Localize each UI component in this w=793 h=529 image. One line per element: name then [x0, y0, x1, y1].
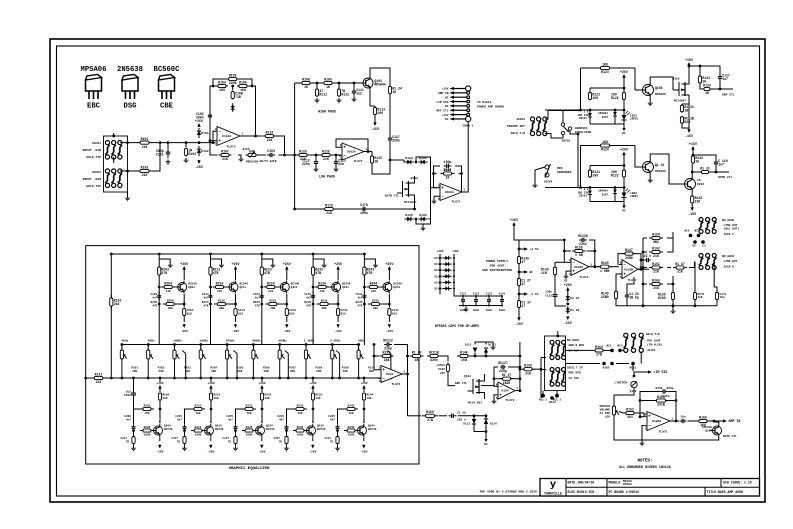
svg-text:-26V: -26V [386, 330, 393, 333]
svg-text:5: 5 [496, 397, 498, 400]
limsig arrow [633, 370, 668, 377]
label mc14007c [468, 402, 482, 405]
EQ slider 4 [199, 340, 217, 380]
svg-text:RC127: RC127 [498, 361, 508, 365]
svg-text:MC14 007: MC14 007 [468, 402, 482, 405]
svg-text:ELEC:M2019.SCH: ELEC:M2019.SCH [568, 490, 595, 494]
svg-text:4n7: 4n7 [306, 296, 311, 299]
svg-text:10K: 10K [316, 397, 321, 400]
svg-text:R216: R216 [218, 299, 225, 302]
svg-text:AND DISTRIBUTION: AND DISTRIBUTION [482, 268, 512, 272]
resistor R104 [216, 80, 228, 92]
svg-text:R162: R162 [652, 246, 660, 250]
labels jack6 [567, 367, 583, 381]
nc dots below j6 [539, 391, 561, 402]
wire u102 out [364, 150, 372, 153]
label mc14007a [404, 201, 417, 204]
transistor Q104 [640, 83, 663, 98]
pwr -26v u105 [564, 316, 572, 324]
resistor R147f [622, 248, 636, 260]
svg-text:DC: DC [622, 210, 626, 213]
svg-text:-26V: -26V [258, 450, 265, 453]
svg-text:1N4004: 1N4004 [598, 190, 608, 193]
capacitor C126 [625, 291, 639, 301]
svg-text:R145: R145 [460, 350, 468, 354]
jack56 box [545, 331, 566, 391]
svg-text:Q231: Q231 [342, 286, 349, 289]
svg-text:C202: C202 [124, 394, 131, 397]
svg-text:R117: R117 [444, 168, 452, 172]
svg-text:R104: R104 [218, 80, 226, 84]
jack JACK7 [699, 218, 717, 234]
svg-text:R159: R159 [426, 410, 434, 414]
resistor R113 [373, 106, 385, 116]
svg-text:GOLD_TIP: GOLD_TIP [86, 155, 101, 159]
wire u102 fb [336, 139, 368, 152]
svg-text:1K: 1K [446, 176, 450, 180]
label q105 [672, 78, 679, 81]
svg-text:R119: R119 [325, 203, 333, 207]
diode D103f [231, 103, 235, 112]
svg-text:10K: 10K [163, 397, 168, 400]
svg-text:2N5638: 2N5638 [117, 66, 143, 74]
svg-text:50K: 50K [264, 370, 269, 373]
resistor R221 [427, 350, 441, 362]
svg-text:−: − [343, 154, 346, 159]
arrow amp in [710, 419, 740, 423]
LED channel 2 [545, 140, 638, 213]
svg-text:R103: R103 [188, 152, 196, 156]
transistor Q106 [640, 160, 665, 175]
svg-text:D104: D104 [419, 156, 427, 160]
resistor R101 [137, 137, 152, 149]
svg-text:VOLUME: VOLUME [600, 408, 611, 411]
EQ lower stage 1 [121, 377, 173, 454]
svg-text:1B 0p: 1B 0p [629, 296, 639, 300]
resistor R154 [654, 395, 669, 407]
svg-text:Q107: Q107 [705, 430, 712, 433]
svg-text:47K: 47K [357, 304, 362, 307]
svg-text:R234: R234 [318, 281, 326, 285]
svg-text:71B: 71B [235, 95, 241, 99]
svg-text:21K: 21K [698, 296, 703, 299]
svg-text:C104: C104 [267, 149, 275, 153]
svg-text:R245: R245 [348, 404, 355, 407]
svg-text:MUTE CTL: MUTE CTL [723, 435, 737, 438]
svg-text:21K: 21K [695, 199, 701, 203]
resistor R149a [0, 0, 1, 1]
resistor R137f [501, 373, 513, 385]
wire u106 fb [639, 392, 678, 423]
wire [389, 143, 391, 160]
svg-text:NC1 3: NC1 3 [553, 399, 561, 402]
svg-text:ZD101: ZD101 [579, 117, 587, 120]
svg-text:R246: R246 [348, 426, 355, 429]
resistor R105 [237, 80, 249, 92]
svg-text:K200: K200 [658, 296, 666, 300]
pwr mid bot [515, 317, 523, 326]
svg-text:+: + [382, 368, 385, 373]
svg-text:XFD 10UF: XFD 10UF [647, 340, 661, 343]
svg-text:LIMITER: LIMITER [614, 382, 627, 385]
svg-text:TO M1019: TO M1019 [477, 101, 492, 104]
resistor R133c [691, 150, 703, 164]
svg-text:GRAPHIC EQUALIZER: GRAPHIC EQUALIZER [229, 467, 270, 471]
svg-text:4n7: 4n7 [203, 296, 208, 299]
svg-text:660Hz: 660Hz [278, 340, 287, 343]
svg-text:100n: 100n [499, 309, 506, 312]
wire q104 base [635, 89, 641, 91]
EQ top rail [111, 253, 364, 255]
EQ slider 8 [304, 340, 323, 380]
svg-text:GOLD_T+R: GOLD_T+R [511, 132, 526, 135]
resistor R110 [231, 86, 243, 100]
wire in+ [212, 131, 215, 144]
EQ slider 10 [357, 340, 375, 380]
wire u104 feed [437, 356, 455, 386]
wire grpctl [719, 88, 733, 91]
svg-text:D134: D134 [490, 423, 497, 426]
svg-text:Q104: Q104 [655, 86, 663, 90]
connector CONN1 [436, 86, 504, 128]
svg-text:Q103: Q103 [464, 375, 471, 378]
svg-text:1K8: 1K8 [602, 140, 608, 144]
svg-text:250Hz: 250Hz [226, 340, 235, 343]
svg-text:TL072: TL072 [353, 160, 362, 163]
nc dots u104 [549, 396, 556, 404]
svg-text:POWER SUPPLY: POWER SUPPLY [486, 259, 508, 263]
svg-text:LIM SIG: LIM SIG [654, 370, 668, 374]
mosfet Q109 [468, 374, 485, 399]
svg-text:Q201: Q201 [188, 286, 195, 289]
svg-text:+: + [572, 269, 575, 274]
svg-text:1: 1 [403, 371, 405, 374]
resistor R142b [0, 0, 1, 1]
svg-text:R160: R160 [699, 415, 707, 419]
svg-text:R101: R101 [141, 137, 149, 141]
svg-text:2B0: 2B0 [219, 307, 224, 310]
svg-text:5KHz: 5KHz [358, 340, 365, 343]
wire c127f [493, 366, 522, 381]
svg-text:FOR 400T: FOR 400T [490, 264, 505, 268]
wire row357 [0, 0, 1, 1]
EQ upper stage 5 [356, 253, 402, 345]
wire q107m [714, 421, 719, 424]
svg-text:1K: 1K [374, 159, 378, 163]
svg-text:1K8: 1K8 [602, 62, 608, 66]
svg-text:ALL UNMARKED DIODES 1N4148: ALL UNMARKED DIODES 1N4148 [619, 465, 670, 469]
svg-text:47: 47 [521, 304, 525, 308]
pwr 26v u105 [564, 283, 572, 294]
resistor R121r [688, 65, 711, 84]
label u201 [391, 383, 400, 386]
svg-text:U106A: U106A [652, 420, 661, 423]
svg-text:GOLD_TIP: GOLD_TIP [86, 184, 101, 188]
EQ slider 6 [252, 340, 270, 380]
svg-text:D1 35: D1 35 [570, 296, 579, 300]
EQ wiper vertical 1 [182, 351, 187, 380]
svg-text:-26V: -26V [156, 450, 163, 453]
wire q107 c [691, 164, 693, 177]
svg-text:50K: 50K [237, 370, 242, 373]
wire c128 r [589, 240, 596, 268]
ground input [125, 192, 130, 201]
svg-text:R1 30: R1 30 [412, 350, 422, 354]
wire u105a out [589, 266, 600, 268]
EQ lower stage 3 [223, 377, 275, 454]
wire jack tops [112, 133, 115, 137]
svg-text:TL072: TL072 [451, 201, 460, 204]
resistor R159 [422, 410, 438, 422]
svg-text:22 n: 22 n [644, 254, 652, 258]
arrow dc mid [518, 270, 534, 274]
power supply diode stack [434, 250, 459, 296]
svg-text:BYPASS CAPS FOR OP-AMPS: BYPASS CAPS FOR OP-AMPS [435, 324, 479, 328]
svg-text:1K: 1K [392, 90, 396, 94]
diode D106 [415, 213, 428, 222]
svg-text:R161: R161 [95, 372, 103, 376]
wire u103 in [430, 187, 437, 189]
svg-text:R235: R235 [297, 404, 304, 407]
svg-text:LA501: LA501 [437, 364, 446, 367]
svg-text:-26V: -26V [232, 330, 239, 333]
wire row416 [408, 415, 422, 417]
svg-text:JACK 6: JACK 6 [724, 266, 735, 269]
svg-text:MPSA06: MPSA06 [655, 170, 666, 173]
svg-text:3: 3 [645, 428, 647, 431]
EQ upper stage 3 [253, 253, 299, 345]
resistor R124c [388, 85, 402, 95]
wire r115 out [372, 159, 391, 174]
svg-text:Q102: Q102 [411, 176, 419, 180]
pwr +15V q105 [685, 58, 693, 66]
label gainctl [385, 195, 400, 198]
EQ slider rail [122, 344, 359, 346]
svg-text:3: 3 [340, 158, 342, 161]
pwr -15V D102 [195, 160, 203, 169]
svg-text:21K: 21K [371, 290, 376, 293]
resistor RV3 [715, 291, 726, 302]
EQ wiper vertical 2 [234, 351, 239, 380]
wire row416c [458, 414, 487, 417]
labels master [600, 405, 611, 419]
svg-text:160Hz: 160Hz [199, 340, 208, 343]
junction bb [0, 0, 1, 1]
wire vert541 [540, 357, 547, 398]
svg-text:4n7: 4n7 [228, 418, 233, 421]
svg-text:4n7: 4n7 [177, 418, 182, 421]
svg-text:TL071: TL071 [391, 383, 400, 386]
svg-text:1: 1 [241, 133, 243, 136]
svg-text:1 0B: 1 0B [575, 253, 583, 257]
svg-text:R244: R244 [370, 281, 378, 285]
nc dots j6 [602, 362, 636, 370]
wire rj verticals [643, 238, 695, 284]
svg-text:y: y [550, 479, 557, 491]
svg-text:3: 3 [438, 198, 440, 201]
svg-text:RC128: RC128 [578, 234, 588, 238]
ground u105a [564, 271, 569, 282]
svg-text:GROUNDER: GROUNDER [557, 171, 572, 174]
svg-text:7B: 7B [330, 440, 334, 443]
svg-text:JACK 7: JACK 7 [724, 233, 735, 236]
resistor RJ5 [649, 278, 663, 290]
label psu [482, 259, 512, 272]
svg-text:2: 2 [379, 367, 381, 370]
svg-text:100n: 100n [473, 309, 480, 312]
svg-text:MC14007: MC14007 [674, 100, 686, 103]
wire c131 [555, 275, 566, 306]
svg-text:INPUT -6dB: INPUT -6dB [82, 148, 101, 152]
diode D136 [566, 303, 580, 314]
svg-text:-26V: -26V [309, 450, 316, 453]
wire row356 to rail [486, 355, 521, 358]
label pregain [243, 148, 259, 164]
svg-text:6: 6 [496, 383, 498, 386]
svg-text:27B: 27B [596, 353, 602, 357]
svg-text:POWER AMP BOARD: POWER AMP BOARD [477, 106, 504, 109]
capacitor C127f [498, 361, 508, 373]
svg-text:PRE M7B: PRE M7B [569, 372, 581, 375]
svg-text:-15V: -15V [371, 127, 379, 131]
wire r137f b [494, 378, 503, 380]
svg-text:DC103: DC103 [434, 269, 442, 272]
svg-text:+15V: +15V [510, 218, 518, 222]
svg-text:DC: DC [530, 271, 534, 274]
resistor R103 [184, 141, 197, 163]
wire bottom bus out [614, 416, 719, 441]
svg-text:47B: 47B [315, 271, 321, 275]
svg-text:NOTES:: NOTES: [637, 460, 652, 464]
svg-text:R138: R138 [575, 245, 583, 249]
svg-text:10K: 10K [214, 397, 219, 400]
svg-text:-15V: -15V [688, 212, 696, 216]
wire row356 [374, 355, 379, 357]
svg-text:21K: 21K [525, 371, 531, 375]
junction out [713, 420, 716, 423]
wire u104 out [515, 390, 520, 392]
svg-text:819: 819 [341, 312, 346, 315]
resistor R143 [521, 364, 535, 376]
svg-text:R106: R106 [229, 73, 237, 77]
svg-text:47B: 47B [213, 271, 219, 275]
resistor R106 [213, 73, 252, 86]
svg-text:U101A: U101A [222, 135, 231, 138]
wire jack1 out [120, 141, 138, 144]
jack JACKL [624, 333, 644, 352]
svg-text:R108: R108 [302, 77, 310, 81]
svg-text:7: 7 [516, 387, 518, 390]
svg-text:C3: C3 [702, 245, 706, 248]
svg-text:D1 36: D1 36 [570, 308, 579, 312]
svg-text:TL072: TL072 [505, 399, 514, 402]
svg-text:1n2: 1n2 [356, 92, 362, 96]
svg-text:U105A: U105A [574, 266, 583, 269]
resistor R128 [296, 149, 310, 161]
EQ slider 1 [120, 340, 138, 380]
EQ lower stage 2 [172, 377, 224, 454]
svg-text:LOW PASS: LOW PASS [319, 175, 335, 179]
svg-text:R206: R206 [167, 299, 174, 302]
svg-text:26V: 26V [440, 372, 445, 375]
EQ slider 5 [226, 340, 244, 380]
EQ slider 2 [147, 340, 165, 380]
svg-text:10K: 10K [265, 397, 270, 400]
svg-text:(RED): (RED) [630, 194, 638, 198]
svg-text:-26V: -26V [207, 450, 214, 453]
svg-text:DC101: DC101 [434, 257, 442, 260]
svg-text:47K: 47K [203, 304, 208, 307]
svg-text:24B: 24B [384, 358, 390, 362]
svg-text:1N4004: 1N4004 [598, 112, 608, 115]
svg-text:(RED): (RED) [630, 117, 638, 121]
jack JACK4 [545, 164, 551, 178]
svg-text:21K: 21K [217, 290, 222, 293]
svg-text:BC546: BC546 [317, 428, 326, 431]
svg-text:R206: R206 [144, 426, 151, 429]
EQ slider 3 [173, 340, 191, 380]
nc dots j5 [606, 345, 623, 353]
wire r147 [618, 254, 642, 271]
svg-text:NO_GOLD: NO_GOLD [722, 219, 734, 222]
pwr -15V rm [0, 0, 1, 1]
op-amp U201 [378, 366, 405, 384]
svg-text:R236: R236 [297, 426, 304, 429]
capacitor C212 [383, 338, 407, 356]
svg-text:R246: R246 [372, 299, 379, 302]
svg-text:JACK2: JACK2 [92, 170, 101, 174]
svg-text:R124: R124 [601, 148, 609, 152]
labels q107t [697, 179, 704, 186]
op-amp U106A [644, 412, 673, 431]
wire ch2 feed [577, 133, 581, 188]
svg-text:2: 2 [215, 143, 217, 146]
svg-text:1000: 1000 [195, 434, 202, 437]
svg-text:10K: 10K [246, 412, 251, 415]
svg-text:Q108: Q108 [630, 390, 637, 393]
svg-text:LOG: LOG [605, 416, 610, 419]
capacitor C111 [352, 82, 364, 102]
arrow +15v mid [518, 247, 539, 251]
wire rj row1 [667, 232, 673, 238]
svg-text:1000: 1000 [348, 434, 355, 437]
svg-text:1: 1 [671, 418, 673, 421]
svg-text:+26V: +26V [360, 382, 367, 385]
svg-text:1K: 1K [326, 85, 330, 89]
svg-text:GRP CTL: GRP CTL [722, 94, 735, 97]
limiter q108 [614, 381, 637, 393]
svg-text:U102A: U102A [347, 151, 356, 154]
wire to clamp [390, 159, 404, 161]
svg-text:50K: 50K [290, 370, 295, 373]
svg-text:GRN D BUS: GRN D BUS [569, 344, 585, 347]
wire q106 base [635, 166, 641, 168]
resistor R112 [337, 82, 350, 103]
svg-text:21K: 21K [142, 145, 148, 149]
label u101 [226, 145, 235, 149]
svg-text:47: 47 [521, 282, 525, 286]
svg-text:P102: P102 [438, 368, 445, 371]
svg-text:D107: D107 [602, 194, 609, 197]
LED channel 1 [545, 62, 638, 135]
svg-text:2.5KHz: 2.5KHz [330, 340, 341, 343]
wire [113, 157, 115, 163]
svg-text:+26V: +26V [334, 262, 342, 266]
pwr +15V chB [689, 142, 697, 150]
svg-text:−: − [441, 195, 444, 200]
EQ wiper vertical 4 [336, 351, 341, 380]
svg-text:2B0: 2B0 [373, 307, 378, 310]
